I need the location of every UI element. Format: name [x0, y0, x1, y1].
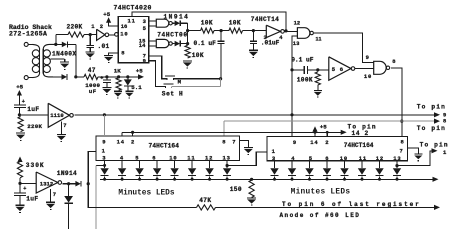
capacitor C7 1uF in	[14, 104, 26, 106]
node T inverter U4D input	[18, 113, 21, 116]
arrowhead To pin 9	[434, 112, 440, 117]
capacitor C1 .01 leads	[89, 35, 91, 45]
svg-text:1uF: 1uF	[26, 195, 38, 202]
svg-text:1N914: 1N914	[164, 14, 190, 21]
svg-text:10K: 10K	[229, 19, 241, 26]
node L reset rail to long vertical	[290, 113, 293, 116]
resistor R11 47K	[197, 205, 216, 210]
svg-text:47K: 47K	[199, 197, 211, 204]
svg-text:1N400X: 1N400X	[52, 51, 76, 58]
wire: U2B out to diode D4	[172, 43, 175, 45]
wire: U2A out to diode D3	[172, 22, 175, 24]
capacitor C3 0.1uF lead	[220, 31, 222, 41]
wire U5 pin 7 to ground	[240, 141, 249, 148]
svg-text:To pin: To pin	[417, 125, 446, 132]
ground C4	[249, 49, 258, 51]
svg-text:14 2: 14 2	[352, 130, 369, 137]
op-amp U4E schmitt inverter 74HCT14 pins 13-12	[36, 172, 58, 193]
svg-text:14: 14	[117, 138, 125, 145]
svg-text:12: 12	[294, 20, 301, 27]
minutes LEDs of U5 with stems	[104, 161, 106, 169]
wire: secondary bottom to diode D2	[53, 76, 62, 78]
transformer T1 Radio Shack 272-1265A primary winding	[33, 44, 40, 49]
svg-text:10: 10	[364, 73, 372, 80]
transformer center tap wire to ground	[50, 58, 64, 60]
wire: node W down to 47K rail	[88, 184, 93, 208]
resistor R7 47	[84, 74, 98, 79]
wire: D4 cathode to node D	[180, 43, 187, 45]
capacitor C6 1000uF	[106, 77, 108, 80]
svg-text:330K: 330K	[26, 162, 45, 169]
svg-text:+5: +5	[103, 11, 110, 18]
stem U4E pin 7 ground	[50, 189, 52, 202]
node W data node	[87, 182, 90, 185]
svg-text:10: 10	[169, 155, 177, 162]
IC U5 74HCT164 left body	[96, 136, 240, 161]
svg-text:2: 2	[100, 23, 103, 30]
node H junction C5	[290, 68, 293, 71]
svg-text:220K: 220K	[27, 123, 42, 130]
svg-text:74HCT164: 74HCT164	[344, 142, 374, 149]
ground C6	[102, 86, 111, 88]
nand gate U3B 74HCT00 pins 9-10-8	[374, 61, 386, 74]
wire: secondary top to diode D1	[56, 43, 62, 45]
wire: AC input bottom terminal lead	[24, 76, 28, 80]
node N QH of U5 to daisy wire	[226, 164, 229, 167]
node G reset drive junction	[284, 29, 287, 32]
wire: rectifier node B to R7	[76, 76, 84, 78]
stub LED1 top to bottom feed gray	[103, 164, 106, 167]
svg-text:1312: 1312	[40, 181, 54, 188]
wire: R1 to inverter U4A input	[84, 34, 97, 36]
wire: C5 to inverter U4C input	[308, 69, 329, 71]
nand gate U2A 74HCT00	[156, 19, 169, 27]
svg-text:To pin: To pin	[420, 141, 449, 148]
wire: U4B out to gate U3A inputs	[284, 30, 297, 32]
svg-text:272-1265A: 272-1265A	[9, 31, 47, 38]
IC U1 74HCT4020 body	[118, 16, 148, 62]
rail: clock line To pin 8 gray	[224, 120, 437, 122]
ground center tap	[60, 61, 69, 63]
wire: U4E out to node V	[62, 183, 75, 185]
node F junction with C4	[252, 29, 255, 32]
arrowhead To pin 14 2	[341, 130, 347, 135]
wire U6 pin 7 to ground	[408, 148, 419, 154]
svg-text:1uF: 1uF	[27, 106, 39, 113]
arrowhead To pin 6	[434, 205, 440, 210]
zener D6 5.1V	[127, 77, 129, 80]
arrowhead To pin 1	[432, 148, 438, 153]
svg-text:Minutes LEDs: Minutes LEDs	[118, 189, 174, 197]
capacitor C5 0.1uF plates	[303, 66, 305, 74]
switch SW1 pushbutton M	[165, 75, 175, 77]
wire: U1 pin 8 to ground	[109, 53, 119, 55]
ground C1	[86, 51, 95, 53]
svg-text:74HCT00: 74HCT00	[157, 31, 188, 38]
wire: 220K tap up from node A	[55, 35, 57, 45]
capacitor C5 0.1uF wire	[292, 69, 304, 71]
wire: R10 to U4E input node	[19, 178, 21, 184]
svg-text:9: 9	[366, 54, 369, 61]
svg-text:7: 7	[53, 191, 56, 198]
wire: junction drop gray	[220, 79, 222, 87]
node V pulse node	[67, 182, 70, 185]
svg-text:16: 16	[121, 23, 128, 30]
svg-text:14: 14	[310, 139, 318, 146]
power +5 arrow supply point	[138, 74, 144, 79]
svg-text:9: 9	[143, 58, 146, 65]
long vertical: reset line to pin 9s and 0.1uF	[291, 45, 293, 137]
node A: secondary top / 220K junction	[54, 43, 57, 46]
arrowhead To pin 8	[434, 119, 440, 124]
transformer T1 secondary winding	[42, 49, 44, 73]
resistor R5 100K	[315, 72, 320, 85]
stub U6 pin 2 to +5 line	[326, 132, 328, 136]
wire: C3 bottom to Set-M switch junction	[220, 44, 222, 79]
svg-text:74HCT4020: 74HCT4020	[114, 5, 152, 12]
svg-text:+: +	[23, 186, 26, 192]
wire: U4A output to U1 clock pin 10	[109, 34, 115, 36]
op-amp U4D schmitt inverter 74HCT14 pins 11-10	[48, 103, 69, 127]
node J clock junction on To-pin-8 rail	[400, 120, 403, 123]
node I junction 100K	[316, 68, 319, 71]
wire: U1 pin 11 reset to top rail	[132, 12, 286, 31]
wire: U3B output down to clock line	[391, 68, 402, 137]
rail: 47K line to pin 6 of last register	[94, 206, 197, 208]
svg-text:13: 13	[293, 40, 300, 47]
jog: clock line down to U5 pin 8 gray	[223, 121, 225, 136]
svg-text:M: M	[178, 79, 182, 86]
ground R5	[314, 89, 322, 91]
resistor R3 10K	[201, 28, 215, 33]
op-amp U4C schmitt inverter 74HCT14 pins 5-6	[329, 57, 351, 81]
U1 pin 10 clock bubble	[115, 33, 119, 37]
ground U4E	[46, 201, 55, 203]
svg-text:11: 11	[128, 17, 136, 24]
node C: .01 cap junction	[89, 33, 92, 36]
svg-text:9: 9	[102, 138, 105, 145]
LED cathode rail to anode-of-60 arrow	[100, 178, 435, 180]
power +5 arrow on supply line	[312, 126, 317, 132]
svg-text:11: 11	[359, 155, 367, 162]
nand gate U3A 74HCT00 pins 12-13-11	[297, 28, 310, 39]
wire: U4C out to gate U3B pin 10	[355, 68, 374, 70]
node P switch junction	[219, 77, 222, 80]
svg-text:1N914: 1N914	[57, 170, 77, 177]
wire: U6 pin 13 QH to To pin 1 arrow	[397, 151, 434, 166]
wire: U1 pin 5 to gate U2A input	[149, 25, 157, 27]
svg-text:7: 7	[400, 147, 403, 154]
wire: R11 to arrow	[216, 206, 436, 208]
svg-text:11: 11	[316, 36, 322, 42]
svg-text:14: 14	[139, 42, 146, 49]
svg-text:To pin 6 of last register: To pin 6 of last register	[282, 201, 421, 208]
svg-text:6: 6	[340, 66, 344, 73]
resistor R4 10K	[229, 28, 243, 33]
diode D4 1N914	[175, 41, 180, 47]
op-amp U4A schmitt inverter 74HCT14 pins 1-2	[97, 29, 105, 40]
ground R2	[183, 60, 192, 62]
ground U1 pin 8	[104, 54, 113, 56]
svg-text:0.1 uF: 0.1 uF	[194, 40, 217, 47]
node S zener junction	[126, 75, 129, 78]
svg-text:+5: +5	[320, 124, 327, 131]
svg-text:7: 7	[232, 138, 235, 145]
IC U6 74HCT164 right body	[267, 136, 408, 160]
wire: SW1 to C3 junction	[173, 78, 220, 80]
wire: U1 pin 14 to gate U2B input	[149, 45, 157, 47]
resistor R10 330K bias with +5 arrow	[17, 157, 22, 163]
ground U4D	[57, 133, 66, 135]
stub U5 pin 9 to reset rail gray	[103, 115, 105, 136]
switch SW2 pushbutton H	[164, 83, 174, 85]
ground U6 pin 7	[414, 153, 422, 155]
resistor R9 220K bias	[18, 117, 23, 132]
wire: U1 pin 3 to gate U2A input	[149, 20, 157, 22]
svg-text:Set H: Set H	[162, 90, 184, 97]
node D vertical tying D3/D4	[187, 23, 189, 45]
node K inverter output to left register pin 9	[103, 113, 106, 116]
node E junction with C3	[220, 29, 223, 32]
svg-text:+: +	[100, 75, 103, 81]
svg-text:+5: +5	[16, 84, 23, 91]
svg-text:7: 7	[63, 122, 66, 129]
resistor R6 150 from LED rail	[250, 178, 253, 181]
svg-text:150: 150	[230, 186, 242, 193]
stub U5 pin 14 to +5 line	[121, 132, 123, 136]
ground R9	[16, 132, 25, 134]
rail: +5 supply line to pins 14 2	[122, 131, 344, 133]
capacitor C4 .01uF lead	[252, 31, 254, 41]
ground C8	[16, 204, 25, 206]
wire: R3 to node E	[214, 30, 229, 32]
svg-text:Minutes LEDs: Minutes LEDs	[291, 189, 351, 197]
ground R8	[114, 90, 122, 92]
diode D5 pulldown pointing down	[68, 184, 70, 196]
svg-text:11: 11	[187, 155, 195, 162]
diode D7 1N914 to U5 pin 1	[75, 181, 80, 187]
svg-text:Anode of #60 LED: Anode of #60 LED	[280, 212, 361, 219]
wire: R4 to node F	[243, 30, 267, 32]
node O QH of U6	[395, 164, 398, 167]
resistor R8 1K	[116, 78, 121, 90]
svg-text:10: 10	[120, 30, 128, 37]
switch SW1 Set M wire from U1 pin 7	[149, 56, 167, 79]
svg-text:74HCT164: 74HCT164	[149, 143, 180, 150]
svg-text:1K: 1K	[114, 68, 121, 75]
svg-text:47: 47	[88, 67, 96, 74]
svg-text:10: 10	[340, 155, 348, 162]
wire: R7 to +5 arrow	[98, 76, 140, 78]
svg-text:uF: uF	[89, 88, 97, 95]
minutes LEDs of U6 with stems	[274, 161, 276, 168]
node M pin 2 left stub	[131, 131, 134, 134]
ground R6	[247, 197, 256, 199]
wire: node D to R3	[188, 30, 201, 32]
wire: U5 pin 13 QH to U6 pin 1	[227, 152, 267, 166]
node B: rectifier output junction	[74, 75, 77, 78]
svg-text:2: 2	[131, 138, 134, 145]
diode D2 1N400X	[62, 74, 67, 80]
svg-text:.01: .01	[98, 43, 110, 50]
svg-text:220K: 220K	[67, 24, 83, 31]
wire: U3A output to gate U3B pin 9	[314, 33, 374, 62]
node R 1K junction	[117, 75, 120, 78]
nand gate U2B 74HCT00	[156, 39, 168, 47]
svg-text:+: +	[22, 99, 25, 105]
stem U4D pin 7 ground	[60, 122, 62, 135]
op-amp U4B schmitt inverter 74HCT14 pins 3-4	[266, 25, 280, 37]
wire: U3A pin 13 input from long vertical	[292, 36, 297, 45]
node Q 1000uF junction	[105, 75, 108, 78]
svg-text:6: 6	[152, 155, 155, 162]
switch SW2 Set H wire from U1 pin 9	[149, 61, 166, 87]
svg-text:2: 2	[325, 139, 328, 146]
resistor R1 220K	[68, 32, 84, 37]
svg-text:To pin: To pin	[417, 104, 446, 111]
wire U5 pin 1 from 1N914 node	[88, 151, 96, 183]
svg-text:5: 5	[332, 66, 336, 73]
capacitor C3 0.1uF plates	[218, 40, 225, 42]
wire: AC input top terminal lead	[24, 42, 28, 46]
diode D3 1N914	[175, 20, 180, 26]
wire: SW2 to junction gray	[172, 86, 221, 88]
svg-text:74HCT14: 74HCT14	[251, 16, 279, 23]
svg-text:100K: 100K	[297, 77, 313, 84]
svg-text:5.1: 5.1	[131, 84, 142, 91]
diode D1 1N400X	[62, 42, 67, 48]
svg-text:0.1 uF: 0.1 uF	[291, 56, 314, 63]
ground D6	[125, 90, 133, 92]
wire: D1 cathode right then down to low-voltage rail	[68, 43, 76, 45]
capacitor C1 .01 plates	[87, 44, 94, 46]
svg-text:+5: +5	[136, 68, 143, 75]
wire: U1 pin 15 to gate U2B input	[149, 40, 157, 42]
svg-text:10K: 10K	[192, 52, 204, 59]
capacitor C8 1uF lower	[19, 183, 21, 192]
ground U5 pin 7	[244, 146, 253, 148]
svg-text:1110: 1110	[50, 112, 64, 119]
svg-text:9: 9	[293, 139, 296, 146]
wire: D3 cathode to node D	[180, 22, 187, 24]
resistor R2 10K pulldown	[185, 45, 190, 58]
rail: reset line To pin 9	[75, 114, 438, 116]
capacitor C4 .01uF plates	[250, 40, 257, 42]
svg-text:10K: 10K	[201, 19, 213, 26]
node U inverter U4E input	[18, 182, 21, 185]
